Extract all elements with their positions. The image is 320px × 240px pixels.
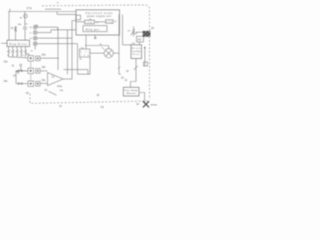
svg-text:1c: 1c: [30, 33, 32, 35]
svg-text:reg: reg: [81, 54, 90, 57]
svg-text:power supply unit: power supply unit: [87, 15, 111, 18]
svg-text:Ce: Ce: [52, 77, 56, 79]
svg-text:1d: 1d: [30, 38, 33, 40]
svg-text:20c: 20c: [42, 79, 47, 82]
svg-text:dc: dc: [115, 21, 117, 23]
svg-text:32: 32: [97, 94, 100, 97]
svg-text:1b: 1b: [30, 27, 33, 29]
svg-text:18b: 18b: [18, 24, 22, 26]
svg-text:21a: 21a: [26, 53, 31, 56]
svg-text:33: 33: [45, 90, 48, 92]
svg-text:RT-4 &: RT-4 &: [132, 48, 141, 50]
svg-text:31: 31: [125, 79, 128, 82]
svg-text:34: 34: [136, 103, 139, 106]
svg-text:Reference: Reference: [126, 92, 137, 95]
svg-text:R R R R: R R R R: [8, 55, 25, 57]
svg-text:Filter: Filter: [133, 53, 140, 56]
svg-text:2a: 2a: [31, 51, 34, 53]
svg-text:18: 18: [20, 17, 23, 19]
svg-text:30: 30: [26, 91, 29, 95]
svg-text:C6: C6: [101, 106, 105, 109]
svg-text:20a: 20a: [42, 53, 47, 56]
svg-text:19: 19: [11, 28, 14, 30]
svg-text:24b: 24b: [4, 80, 9, 83]
svg-text:5.1v: 5.1v: [81, 51, 90, 53]
svg-text:Amp: Amp: [57, 85, 63, 88]
svg-text:33: 33: [126, 71, 129, 73]
svg-text:20b: 20b: [42, 66, 47, 69]
svg-text:10: 10: [25, 23, 28, 25]
svg-text:24a: 24a: [4, 61, 9, 64]
svg-text:24v: 24v: [138, 39, 143, 42]
svg-text:Ring Driver: Ring Driver: [10, 43, 28, 46]
svg-text:29: 29: [128, 31, 131, 33]
svg-text:25b: 25b: [60, 90, 64, 92]
svg-text:Ring gen: Ring gen: [86, 28, 100, 31]
svg-text:27: 27: [135, 33, 138, 36]
svg-text:22: 22: [12, 65, 15, 67]
svg-text:5b: 5b: [80, 59, 83, 61]
svg-text:17a: 17a: [27, 6, 32, 10]
svg-text:Prog. Voltage: Prog. Voltage: [124, 89, 138, 92]
svg-text:26: 26: [151, 26, 154, 30]
svg-text:11: 11: [57, 2, 60, 4]
svg-text:16: 16: [59, 105, 62, 108]
svg-text:28: 28: [94, 38, 97, 40]
svg-text:Line Reg: Line Reg: [132, 51, 141, 53]
